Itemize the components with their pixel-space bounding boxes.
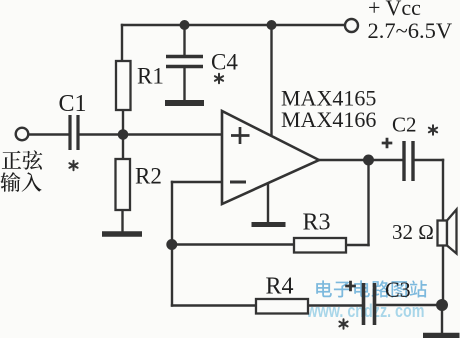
wire ground node down to bottom ground <box>441 305 443 333</box>
wire feedback node to R3 left <box>172 243 294 245</box>
wire C3 to output ground node <box>376 304 443 306</box>
resistor R4 body <box>256 299 308 314</box>
terminal +Vcc circle <box>345 19 358 32</box>
ground under R2 <box>102 231 142 237</box>
asterisk under C3 <box>339 319 347 328</box>
svg-text:MAX4166: MAX4166 <box>281 107 376 132</box>
label 输入 (input) <box>0 172 20 192</box>
resistor R3 body <box>294 238 346 253</box>
junction dot feedback node <box>166 239 177 250</box>
svg-text:32 Ω: 32 Ω <box>392 220 434 244</box>
asterisk under C1 <box>69 161 77 170</box>
wire feedback riser up to output node <box>367 160 369 245</box>
asterisk right of C2 <box>429 125 437 134</box>
resistor R2 body <box>116 159 131 210</box>
wire C1 to node A (noninverting input node) <box>80 133 223 135</box>
junction dot node A input/R1/R2 <box>118 129 129 140</box>
wire inverting input horizontal <box>172 181 222 183</box>
svg-text:R4: R4 <box>266 274 294 300</box>
ground bottom right output <box>423 333 460 338</box>
wire C2 to speaker drop <box>414 159 443 161</box>
polarity + of C3 <box>345 281 356 292</box>
capacitor C2 plates <box>404 141 413 181</box>
wire +Vcc top supply rail <box>122 24 344 26</box>
op-amp U1 MAX4165/MAX4166 triangle <box>222 111 319 204</box>
op-amp noninverting + pin mark <box>231 127 250 144</box>
wire inverting node vertical down to R4 line <box>171 182 173 306</box>
junction dot output node <box>363 155 374 166</box>
svg-text:C1: C1 <box>59 91 87 117</box>
wire speaker vertical drop <box>442 160 444 305</box>
wire input terminal to C1 <box>29 133 69 135</box>
wire op-amp V+ supply lead <box>270 25 272 134</box>
op-amp inverting - pin mark <box>230 181 246 184</box>
junction dot speaker/C3/ground node <box>436 299 448 311</box>
ground under op-amp <box>252 222 286 227</box>
capacitor C3 plates <box>364 283 375 325</box>
svg-text:C2: C2 <box>392 113 417 137</box>
svg-text:C3: C3 <box>385 277 411 302</box>
svg-text:+ Vcc: + Vcc <box>368 0 421 20</box>
wire R1 bottom lead through node A to R2 top <box>122 110 124 159</box>
junction dot rail-C4 <box>180 20 190 30</box>
wire op-amp output to C2 <box>319 159 403 161</box>
speaker horn cone <box>447 210 457 254</box>
wire R2 bottom lead to ground <box>121 210 123 232</box>
label 正弦 (sine) <box>2 151 21 169</box>
input terminal circle 正弦输入 <box>16 128 29 141</box>
svg-text:R2: R2 <box>135 164 162 189</box>
watermark 电子电路图站 <box>316 280 427 297</box>
asterisk under C4 <box>215 74 223 83</box>
resistor R1 body <box>116 61 131 110</box>
wire R1 top lead from rail <box>121 25 123 61</box>
junction dot rail-opamp supply <box>267 20 277 30</box>
ground under C4 <box>165 100 204 106</box>
svg-text:C4: C4 <box>211 50 238 75</box>
speaker 32 ohm: coil box <box>438 221 448 246</box>
wire C4 bottom lead to ground <box>183 68 185 101</box>
wire R3 right to feedback riser <box>346 244 369 246</box>
wire op-amp ground lead <box>267 184 269 222</box>
polarity + of C2 <box>382 138 393 149</box>
wire C4 top lead from rail <box>183 25 185 54</box>
capacitor C4 plates <box>166 57 203 67</box>
svg-text:R1: R1 <box>137 64 164 89</box>
wire R4 right to C3 <box>308 304 362 306</box>
svg-text:2.7~6.5V: 2.7~6.5V <box>368 18 453 43</box>
wire bottom line to R4 left <box>172 304 256 306</box>
capacitor C1 plates <box>70 115 78 150</box>
svg-text:R3: R3 <box>303 210 331 236</box>
